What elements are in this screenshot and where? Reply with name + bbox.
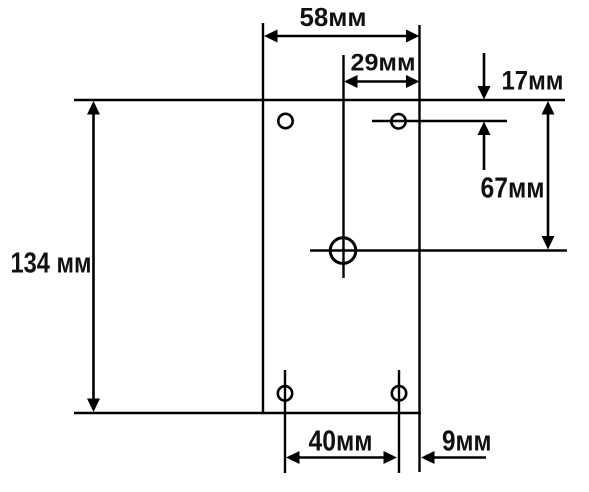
dimension 134 mm vertical line xyxy=(87,101,100,412)
center vertical axis line xyxy=(342,55,344,278)
dimension 17 mm lower arrow xyxy=(478,122,491,171)
svg-text:134 мм: 134 мм xyxy=(11,247,92,279)
bottom-left hole extension line xyxy=(284,370,286,473)
svg-text:29мм: 29мм xyxy=(351,50,416,77)
dimension 9 mm arrow line xyxy=(421,451,486,464)
plate bottom edge line xyxy=(74,412,421,414)
bottom-right hole circle xyxy=(392,386,406,400)
plate left edge line xyxy=(262,23,264,413)
top-right hole circle xyxy=(391,114,405,128)
svg-text:9мм: 9мм xyxy=(442,425,492,457)
svg-text:58мм: 58мм xyxy=(300,2,367,32)
dimension 17 mm upper arrow xyxy=(478,53,491,100)
dimension 67 mm vertical line xyxy=(542,101,555,250)
svg-text:67мм: 67мм xyxy=(481,172,545,204)
bottom-left hole circle xyxy=(278,386,292,400)
center hole circle xyxy=(330,238,356,264)
top-right hole axis line xyxy=(372,120,507,122)
plate right edge line xyxy=(418,25,420,472)
bottom-right hole extension line xyxy=(398,370,400,473)
center hole axis horizontal line xyxy=(310,249,567,251)
svg-text:17мм: 17мм xyxy=(502,66,564,96)
plate top edge line xyxy=(74,99,565,101)
dimension 40 mm horizontal line xyxy=(286,451,397,464)
dimension 29 mm horizontal line xyxy=(344,75,420,88)
dimension 58 mm horizontal line xyxy=(264,30,420,43)
top-left hole circle xyxy=(278,114,292,128)
svg-text:40мм: 40мм xyxy=(309,425,373,457)
